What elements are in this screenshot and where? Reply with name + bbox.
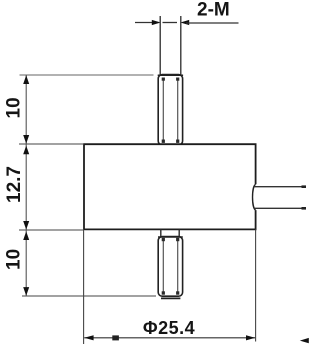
arrow down at y144 (upper) xyxy=(23,135,29,144)
extension line body top xyxy=(19,143,84,145)
top stud threaded section xyxy=(158,75,183,145)
cable top line xyxy=(255,186,306,188)
phi extension line right xyxy=(255,230,257,342)
dimension line stud diameter (left tail) xyxy=(135,22,159,24)
top stud shank / extension line left xyxy=(159,16,161,76)
dimension tail under 2-M text xyxy=(186,22,239,24)
top stud thread inner line left xyxy=(162,78,165,143)
arrow up at y75 xyxy=(23,75,29,84)
cable bottom end tick xyxy=(302,207,307,210)
body outline (right edge has gap for cable grommet) xyxy=(84,144,256,229)
svg-text:Φ25.4: Φ25.4 xyxy=(143,318,195,338)
bottom stud threaded section xyxy=(158,237,183,297)
bottom stud end cap xyxy=(161,297,180,299)
vertical dimension line left chain xyxy=(25,75,27,296)
arrow left (points right at stud) xyxy=(152,20,161,25)
top stud shank / extension line right xyxy=(180,16,182,76)
dimension line between extension lines xyxy=(163,22,178,24)
phi dimension line xyxy=(84,337,255,339)
arrow right (points left at stud) xyxy=(180,20,189,25)
top stud thread inner line right xyxy=(176,78,179,143)
extension line top of stud (10 dim) xyxy=(20,74,154,76)
bottom stud shank right xyxy=(178,229,180,237)
bottom stud thread inner line right xyxy=(176,238,179,295)
extension line body bottom xyxy=(19,229,84,231)
svg-text:10: 10 xyxy=(3,97,24,118)
phi arrow left xyxy=(84,335,93,340)
svg-text:12.7: 12.7 xyxy=(4,166,25,203)
cable top end tick xyxy=(302,185,307,188)
arrow up at y144 (lower) xyxy=(23,146,29,155)
bottom stud thread inner line left xyxy=(162,238,165,295)
phi extension line left xyxy=(83,231,85,345)
bottom stud shank left xyxy=(160,229,162,237)
phi arrow right xyxy=(246,335,255,340)
cable bottom line xyxy=(255,207,306,209)
cable grommet arc xyxy=(253,184,256,210)
extension line bottom of stud xyxy=(22,295,156,297)
svg-text:2-M: 2-M xyxy=(197,0,230,21)
square mark on phi dimension line xyxy=(112,335,119,340)
stray arrow at right edge xyxy=(300,338,309,343)
arrow up at y230 (lower) xyxy=(23,231,29,240)
arrow down at y230 (upper) xyxy=(23,221,29,230)
svg-text:10: 10 xyxy=(3,249,24,270)
arrow down at y296 xyxy=(23,287,29,296)
